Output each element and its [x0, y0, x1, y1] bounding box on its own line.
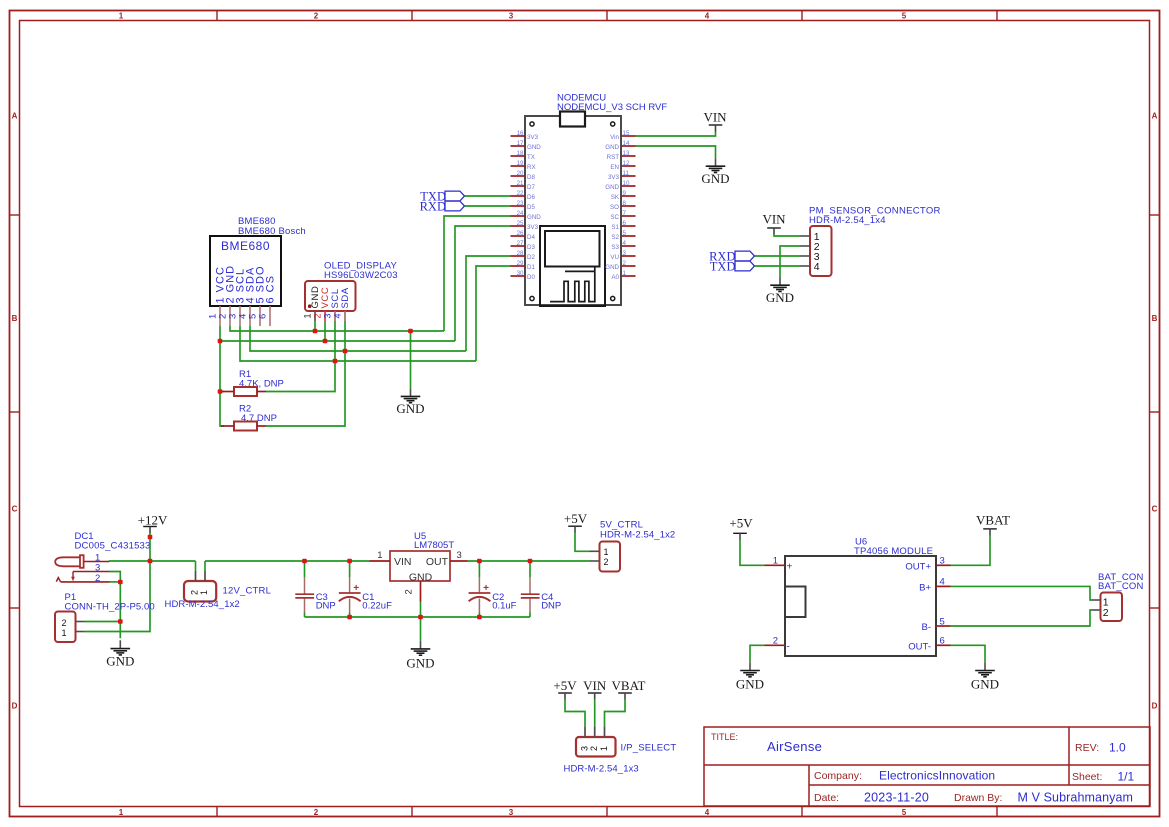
svg-text:AirSense: AirSense — [767, 739, 822, 754]
svg-text:4: 4 — [333, 313, 343, 318]
svg-text:5: 5 — [940, 616, 945, 627]
svg-text:21: 21 — [517, 180, 524, 187]
svg-text:13: 13 — [623, 150, 630, 157]
svg-text:D8: D8 — [527, 174, 535, 181]
title block — [704, 727, 1150, 806]
pm connector pin 4 — [800, 261, 820, 273]
svg-text:4: 4 — [623, 240, 627, 247]
svg-text:-: - — [787, 641, 790, 652]
svg-text:+: + — [353, 583, 359, 594]
wire BME680 VCC down to pullups — [220, 326, 224, 426]
resistor R2 4.7 DNP — [221, 404, 277, 431]
svg-text:LM7805T: LM7805T — [414, 540, 454, 551]
svg-text:VIN: VIN — [703, 109, 727, 124]
svg-text:30: 30 — [517, 270, 524, 277]
svg-text:RST: RST — [607, 154, 620, 161]
wire GND pin14 down — [636, 146, 716, 158]
wire Vin to VIN flag — [636, 131, 716, 137]
wire +5V to ip pin3 — [565, 699, 585, 726]
svg-text:B: B — [1152, 314, 1158, 323]
tp4056 pin 4 B+ — [919, 577, 950, 594]
svg-text:SK: SK — [611, 194, 620, 201]
svg-text:HDR-M-2.54_1x4: HDR-M-2.54_1x4 — [809, 215, 886, 226]
wire oled pin3 drop — [334, 321, 336, 361]
svg-text:Company:: Company: — [814, 770, 862, 782]
svg-text:22: 22 — [517, 190, 524, 197]
bme680 pin 4 — [238, 267, 257, 326]
nodemcu ESP module outline — [540, 226, 605, 306]
tp4056 pin 5 B- — [922, 616, 951, 633]
svg-text:D1: D1 — [527, 264, 535, 271]
wire oled pin4 drop — [344, 321, 346, 351]
header I/P_SELECT HDR-M-2.54_1x3 — [564, 726, 677, 774]
svg-text:2: 2 — [313, 313, 323, 318]
nodemcu pin 2 GND — [605, 260, 635, 271]
power flag +5V at tp4056 — [729, 516, 753, 540]
svg-text:+: + — [787, 561, 793, 572]
svg-text:TITLE:: TITLE: — [711, 732, 738, 742]
svg-text:DNP: DNP — [316, 601, 336, 612]
nodemcu pin 19 RX — [511, 160, 536, 171]
wire jack pin3 to gnd column — [110, 572, 121, 639]
nodemcu pin 29 D1 — [511, 260, 536, 271]
wire +5V to tp4056 pin1 — [740, 539, 765, 565]
nodemcu pin 6 S1 — [611, 220, 635, 231]
nodemcu pin 27 D3 — [511, 240, 536, 251]
svg-text:+5V: +5V — [553, 678, 577, 693]
wire nodemcu D2 pin28 to bus — [466, 256, 511, 351]
svg-text:GND: GND — [106, 653, 134, 668]
svg-text:CONN-TH_2P-P5.00: CONN-TH_2P-P5.00 — [65, 602, 155, 613]
wire R1 left stub — [220, 391, 224, 393]
svg-text:5V_CTRL: 5V_CTRL — [600, 519, 643, 530]
svg-text:DNP: DNP — [541, 601, 561, 612]
nodemcu pin 15 Vin — [610, 130, 635, 141]
nodemcu pin 12 EN — [610, 160, 635, 171]
wire SCL bus line — [240, 326, 476, 361]
svg-text:0.1uF: 0.1uF — [492, 601, 516, 612]
svg-text:OUT+: OUT+ — [905, 561, 931, 572]
svg-text:15: 15 — [623, 130, 630, 137]
svg-text:S3: S3 — [611, 244, 619, 251]
svg-text:4: 4 — [705, 808, 710, 817]
svg-text:HDR-M-2.54_1x2: HDR-M-2.54_1x2 — [600, 530, 675, 541]
nodemcu pin 8 SO — [610, 200, 635, 211]
svg-text:3: 3 — [623, 250, 627, 257]
svg-text:3: 3 — [940, 556, 945, 567]
svg-text:10: 10 — [623, 180, 630, 187]
svg-text:29: 29 — [517, 260, 524, 267]
svg-text:M V Subrahmanyam: M V Subrahmanyam — [1018, 791, 1134, 805]
svg-text:16: 16 — [517, 130, 524, 137]
ground GND main bus — [396, 388, 424, 416]
svg-text:BAT_CON: BAT_CON — [1098, 581, 1144, 592]
bme680 pin 3 — [228, 268, 247, 326]
svg-text:VBAT: VBAT — [612, 678, 646, 693]
svg-text:VIN: VIN — [583, 678, 607, 693]
svg-text:1: 1 — [773, 556, 778, 567]
svg-text:SDA: SDA — [340, 287, 351, 308]
nodemcu pin 11 3V3 — [608, 170, 636, 181]
svg-text:1: 1 — [303, 313, 313, 318]
net port TXD — [420, 189, 464, 203]
svg-text:ElectronicsInnovation: ElectronicsInnovation — [879, 769, 995, 783]
svg-text:GND: GND — [701, 171, 729, 186]
svg-text:4: 4 — [940, 577, 945, 588]
svg-text:VU: VU — [610, 254, 619, 261]
junction dots i2c bus — [218, 329, 413, 394]
svg-text:D4: D4 — [527, 234, 535, 241]
sensor BME680 — [210, 216, 306, 306]
svg-text:7: 7 — [623, 210, 627, 217]
nodemcu pin 28 D2 — [511, 250, 536, 261]
power flag +12V — [138, 512, 168, 533]
wire R1 to SCL — [266, 361, 335, 392]
svg-text:GND: GND — [396, 401, 424, 416]
nodemcu pin 17 GND — [511, 140, 542, 151]
svg-text:C: C — [12, 505, 18, 514]
svg-text:+12V: +12V — [138, 512, 168, 527]
svg-text:3V3: 3V3 — [608, 174, 620, 181]
ground GND tp4056 left — [736, 662, 764, 691]
svg-text:11: 11 — [623, 170, 630, 177]
net port TXD at pm — [710, 259, 755, 273]
wire nodemcu D1 pin29 to bus — [476, 266, 511, 361]
wire 12vctrl pin1 drop and rail — [204, 561, 206, 571]
svg-text:2: 2 — [773, 636, 778, 647]
wire oled pin2 drop — [324, 321, 326, 341]
svg-text:D6: D6 — [527, 194, 535, 201]
wire cap bottom rail — [305, 616, 531, 618]
svg-text:6: 6 — [940, 636, 945, 647]
wire VIN to ip pin2 — [594, 699, 596, 726]
power flag VBAT at ip select — [612, 678, 646, 700]
tp4056 pin 3 OUT+ — [905, 556, 950, 573]
svg-text:GND: GND — [527, 214, 541, 221]
svg-text:17: 17 — [517, 140, 524, 147]
nodemcu pin 1 A0 — [611, 270, 635, 281]
svg-text:2: 2 — [62, 618, 67, 628]
svg-text:26: 26 — [517, 230, 524, 237]
wire oled pin1 drop — [314, 321, 316, 331]
svg-text:14: 14 — [623, 140, 630, 147]
svg-text:3: 3 — [457, 550, 462, 561]
svg-text:1: 1 — [62, 628, 67, 638]
wire gnd drop U5 — [420, 617, 422, 641]
svg-text:25: 25 — [517, 220, 524, 227]
nodemcu pin 23 D5 — [511, 200, 536, 211]
pm connector pin 3 — [800, 251, 820, 263]
svg-text:2023-11-20: 2023-11-20 — [864, 791, 929, 805]
connector BAT_CON — [1092, 572, 1144, 621]
nodemcu pin 24 GND — [511, 210, 542, 221]
oled pin 4 SDA — [333, 287, 352, 321]
svg-text:24: 24 — [517, 210, 524, 217]
svg-text:HS96L03W2C03: HS96L03W2C03 — [324, 270, 398, 281]
capacitor C3 DNP — [295, 561, 335, 617]
svg-text:GND: GND — [605, 264, 619, 271]
svg-text:5: 5 — [902, 808, 907, 817]
svg-text:1: 1 — [119, 11, 124, 20]
nodemcu pin 10 GND — [605, 180, 635, 191]
svg-text:I/P_SELECT: I/P_SELECT — [621, 742, 677, 753]
ground GND at U5 — [406, 641, 434, 671]
svg-text:6 CS: 6 CS — [264, 275, 276, 303]
oled pin 2 VCC — [313, 287, 332, 321]
pm connector pin 1 — [800, 231, 820, 243]
svg-text:2: 2 — [404, 589, 415, 594]
svg-text:3: 3 — [509, 11, 514, 20]
svg-text:Drawn By:: Drawn By: — [954, 792, 1002, 804]
svg-text:BME680: BME680 — [221, 239, 270, 253]
power flag +5V at ip select — [553, 678, 577, 700]
nodemcu pin 4 S3 — [611, 240, 635, 251]
svg-text:+5V: +5V — [729, 516, 753, 531]
svg-text:HDR-M-2.54_1x2: HDR-M-2.54_1x2 — [165, 599, 240, 610]
capacitor C1 0.22uF — [339, 561, 392, 617]
wire +12V down to P1 pin1 — [85, 533, 151, 632]
nodemcu pin 3 VU — [610, 250, 635, 261]
capacitor C4 DNP — [521, 561, 561, 617]
power flag +5V at 5v ctrl — [564, 511, 588, 533]
bme680 pin 6 — [258, 275, 277, 326]
nodemcu pin 13 RST — [607, 150, 636, 161]
wire B+ to bat_con pin1 — [951, 586, 1092, 600]
tp4056 pin 2 - — [765, 636, 790, 653]
nodemcu pin 25 3V3 — [511, 220, 539, 231]
svg-text:12V_CTRL: 12V_CTRL — [223, 586, 272, 597]
svg-text:TX: TX — [527, 154, 535, 161]
nodemcu antenna meander — [550, 266, 595, 301]
svg-text:RXD: RXD — [420, 199, 446, 213]
svg-text:GND: GND — [406, 656, 434, 671]
header 12V_CTRL HDR-M-2.54_1x2 — [165, 571, 272, 610]
oled pin 1 GND — [303, 286, 322, 321]
wire P1 pin2 — [85, 621, 121, 623]
svg-text:C: C — [1152, 505, 1158, 514]
svg-text:3: 3 — [95, 562, 100, 573]
wire out- to gnd — [951, 645, 986, 662]
ground GND at pm connector — [766, 277, 794, 305]
connector P1 CONN-TH_2P-P5.00 — [55, 592, 155, 642]
svg-text:+5V: +5V — [564, 511, 588, 526]
svg-text:1: 1 — [604, 547, 609, 557]
tp4056 pin 1 + — [765, 556, 793, 573]
svg-text:1/1: 1/1 — [1118, 770, 1135, 784]
svg-text:3V3: 3V3 — [527, 224, 539, 231]
svg-text:D: D — [12, 702, 18, 711]
wire jack pin2 to gnd column — [110, 581, 121, 583]
svg-text:VIN: VIN — [762, 212, 786, 227]
wire jack pin1 to rail — [110, 560, 196, 563]
svg-text:SO: SO — [610, 204, 619, 211]
power flag VIN at ip select — [583, 678, 607, 700]
power flag VBAT — [976, 512, 1010, 535]
svg-text:D2: D2 — [527, 254, 535, 261]
connector PM_SENSOR_CONNECTOR HDR-M-2.54_1x4 — [809, 206, 941, 277]
svg-text:3V3: 3V3 — [527, 134, 539, 141]
title text — [711, 732, 1135, 805]
svg-text:RX: RX — [527, 164, 536, 171]
nodemcu pin 30 D0 — [511, 270, 536, 281]
oled pin 3 SCL — [323, 288, 342, 321]
svg-text:SC: SC — [610, 214, 619, 221]
svg-text:4: 4 — [814, 261, 820, 273]
tp4056 pin 6 OUT- — [908, 636, 950, 653]
svg-text:D3: D3 — [527, 244, 535, 251]
svg-text:23: 23 — [517, 200, 524, 207]
wire VIN to pm pin1 — [774, 234, 800, 236]
wire VBAT to ip pin1 — [605, 699, 626, 726]
svg-text:2: 2 — [190, 590, 200, 595]
nodemcu pin 5 S2 — [611, 230, 635, 241]
svg-text:HDR-M-2.54_1x3: HDR-M-2.54_1x3 — [564, 764, 639, 775]
wire RXD to pm pin3 — [755, 255, 801, 257]
wire out rail — [468, 560, 590, 562]
display OLED_DISPLAY HS96L03W2C03 — [305, 260, 398, 311]
wire pm pin2 to gnd — [780, 246, 800, 277]
svg-text:B-: B- — [922, 622, 932, 633]
capacitor C2 0.1uF — [469, 561, 517, 617]
svg-text:S2: S2 — [611, 234, 619, 241]
svg-text:GND: GND — [605, 184, 619, 191]
nodemcu pin 9 SK — [611, 190, 636, 201]
svg-text:27: 27 — [517, 240, 524, 247]
svg-text:3: 3 — [509, 808, 514, 817]
power flag VIN at pm connector — [762, 212, 786, 235]
ground GND tp4056 right — [971, 662, 999, 691]
nodemcu pin 21 D7 — [511, 180, 536, 191]
svg-text:2: 2 — [623, 260, 627, 267]
svg-text:1: 1 — [119, 808, 124, 817]
svg-text:2: 2 — [1103, 607, 1109, 619]
svg-text:Date:: Date: — [814, 792, 839, 804]
svg-text:D7: D7 — [527, 184, 535, 191]
nodemcu pin 20 D8 — [511, 170, 536, 181]
regulator U5 LM7805T — [370, 531, 468, 602]
nodemcu pin 18 TX — [511, 150, 535, 161]
wire SDA bus line — [250, 326, 466, 351]
svg-text:EN: EN — [610, 164, 619, 171]
svg-text:GND: GND — [605, 144, 619, 151]
svg-text:D0: D0 — [527, 274, 535, 281]
wire RXD to D5 — [465, 205, 511, 207]
svg-text:GND: GND — [766, 290, 794, 305]
svg-text:19: 19 — [517, 160, 524, 167]
wire GND bus line — [230, 326, 444, 331]
wire B- to bat_con pin2 — [951, 610, 1092, 626]
svg-text:OUT: OUT — [426, 556, 449, 568]
svg-text:D5: D5 — [527, 204, 535, 211]
svg-text:GND: GND — [971, 676, 999, 691]
svg-text:1: 1 — [199, 590, 209, 595]
svg-text:Vin: Vin — [610, 134, 619, 141]
power flag VIN — [703, 109, 727, 131]
nodemcu corner holes — [530, 122, 615, 301]
svg-text:GND: GND — [736, 676, 764, 691]
wire rail to U5 — [205, 560, 370, 562]
connector DC1 DC005_C431533 — [55, 531, 150, 584]
svg-text:4: 4 — [705, 11, 710, 20]
svg-text:1: 1 — [623, 270, 627, 277]
wire U5 gnd pin — [420, 602, 422, 618]
wire GND bus drop — [410, 331, 412, 388]
svg-text:VBAT: VBAT — [976, 512, 1010, 527]
svg-text:12: 12 — [623, 160, 630, 167]
nodemcu pin 14 GND — [605, 140, 635, 151]
wire VCC bus line — [220, 340, 455, 342]
svg-text:6: 6 — [623, 220, 627, 227]
svg-text:S1: S1 — [611, 224, 619, 231]
wire 12vctrl pin2 drop — [195, 561, 197, 571]
ground GND at P1 — [106, 640, 134, 668]
svg-text:B: B — [12, 314, 18, 323]
svg-text:1.0: 1.0 — [1109, 740, 1126, 754]
svg-text:A: A — [12, 112, 18, 121]
nodemcu pin 7 SC — [610, 210, 635, 221]
svg-text:GND: GND — [527, 144, 541, 151]
wire TXD to D6 — [465, 195, 511, 197]
nodemcu pin 16 3V3 — [511, 130, 539, 141]
junction dots power rails — [118, 535, 532, 624]
header 5V_CTRL HDR-M-2.54_1x2 — [590, 519, 676, 571]
svg-text:9: 9 — [623, 190, 627, 197]
wire nodemcu 3V3 pin25 to bus — [455, 226, 511, 341]
svg-text:2: 2 — [604, 557, 609, 567]
svg-text:3: 3 — [579, 746, 589, 751]
svg-text:28: 28 — [517, 250, 524, 257]
svg-text:REV:: REV: — [1075, 742, 1099, 754]
bme680 pin 2 — [218, 265, 237, 326]
svg-text:DC005_C431533: DC005_C431533 — [75, 540, 151, 551]
wire tp4056 pin2 to gnd — [750, 645, 765, 662]
wire nodemcu GND pin24 to bus — [444, 216, 511, 331]
svg-text:1: 1 — [599, 746, 609, 751]
svg-text:6: 6 — [258, 314, 269, 319]
svg-text:2: 2 — [314, 808, 319, 817]
svg-text:TXD: TXD — [710, 259, 736, 273]
svg-text:A0: A0 — [611, 274, 619, 281]
svg-text:20: 20 — [517, 170, 524, 177]
svg-text:B+: B+ — [919, 582, 931, 593]
module U6 TP4056 MODULE — [785, 537, 936, 657]
wire TXD to pm pin4 — [755, 265, 801, 267]
module NODEMCU NODEMCU_V3 SCH RVF — [525, 93, 667, 306]
svg-text:18: 18 — [517, 150, 524, 157]
svg-text:VIN: VIN — [394, 556, 412, 568]
pm connector pin 2 — [800, 241, 820, 253]
net port RXD — [420, 199, 465, 213]
bme680 pin 5 — [248, 265, 267, 326]
nodemcu pin 22 D6 — [511, 190, 536, 201]
nodemcu usb notch — [560, 112, 585, 127]
nodemcu pin 26 D4 — [511, 230, 536, 241]
svg-text:5: 5 — [902, 11, 907, 20]
svg-text:2: 2 — [589, 746, 599, 751]
svg-text:OUT-: OUT- — [908, 641, 931, 652]
svg-text:1: 1 — [377, 550, 382, 561]
svg-text:D: D — [1152, 702, 1158, 711]
svg-text:8: 8 — [623, 200, 627, 207]
ground GND at nodemcu — [701, 158, 729, 186]
resistor R1 4.7K, DNP — [221, 369, 284, 396]
svg-text:Sheet:: Sheet: — [1072, 771, 1102, 783]
svg-text:5: 5 — [623, 230, 627, 237]
svg-text:0.22uF: 0.22uF — [362, 601, 392, 612]
svg-text:+: + — [483, 583, 489, 594]
svg-text:A: A — [1152, 112, 1158, 121]
wire +5V to 5vctrl pin1 — [575, 532, 590, 551]
